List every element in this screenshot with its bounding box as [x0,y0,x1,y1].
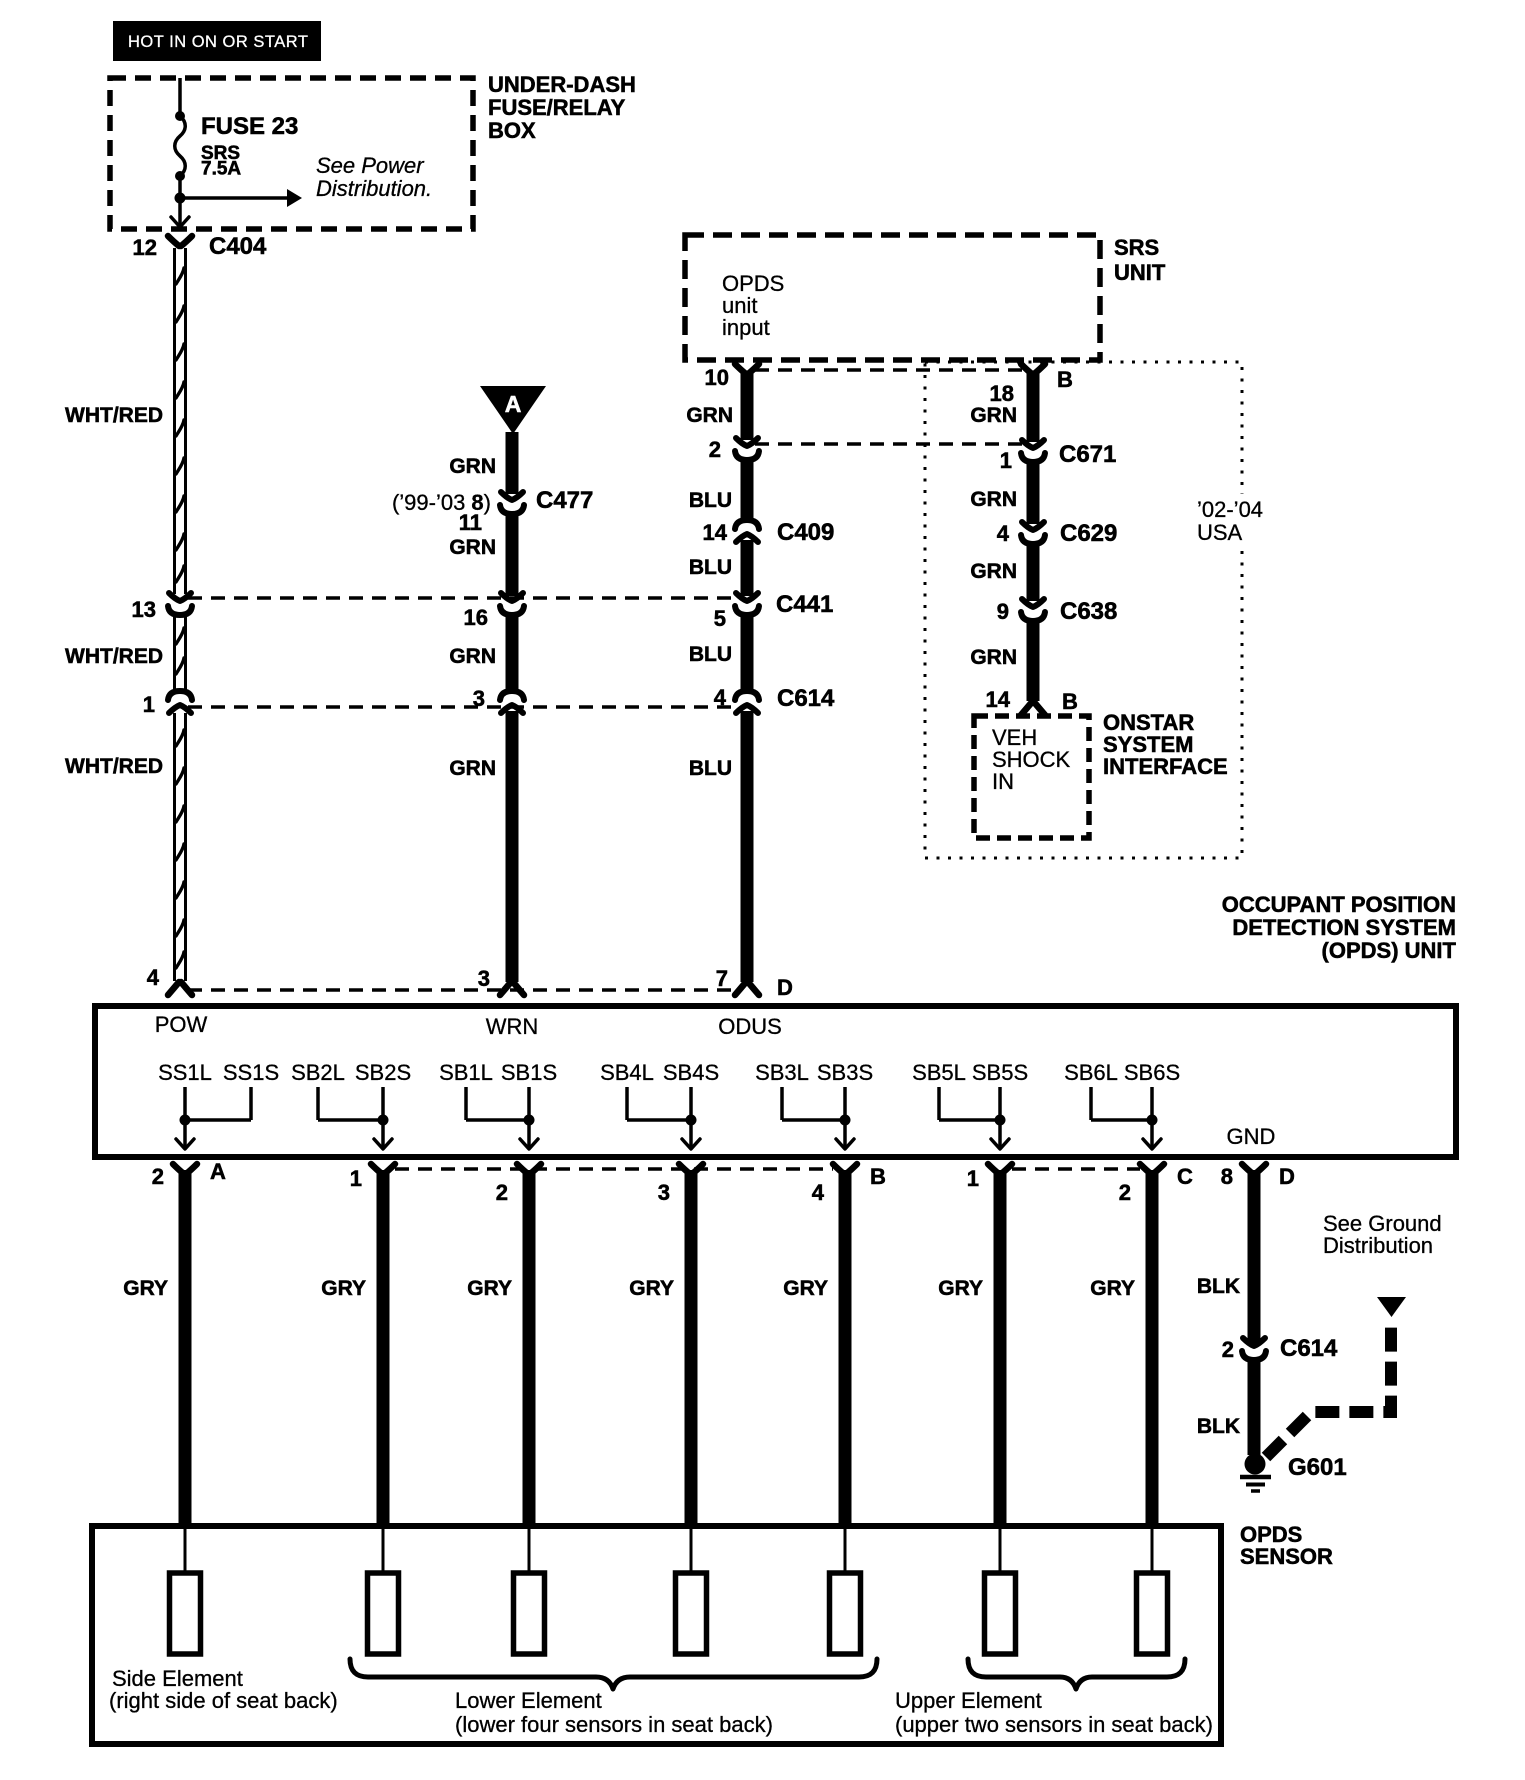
connector pin 10 [735,364,759,374]
brace upper element [968,1659,1185,1689]
wire SB6L stub [1089,1087,1093,1120]
sensor element 1 [170,1573,201,1654]
svg-text:2: 2 [1222,1337,1234,1362]
svg-text:BLK: BLK [1197,1415,1240,1438]
sensor element 5 lead [844,1526,847,1573]
svg-text:WHT/RED: WHT/RED [65,404,163,427]
wire SB4S stub [689,1087,693,1120]
wire GRY 4 [685,1170,698,1526]
svg-text:SB2L: SB2L [291,1060,345,1085]
branch wire to power distribution [180,196,287,200]
svg-text:BLU: BLU [689,489,732,512]
svg-text:Distribution.: Distribution. [316,176,432,201]
wire GRN segment 1-4 [1027,460,1040,524]
connector C477 [501,492,523,500]
wire BLK segment 2-G601 [1248,1358,1261,1455]
svg-text:SB5L: SB5L [912,1060,966,1085]
wire SS1L stub [183,1087,187,1120]
wire GRN segment B-1 [1027,372,1040,442]
connector C441 [736,593,758,601]
arrow SB6 to pin [1150,1120,1154,1149]
node dot SB3 [840,1115,851,1126]
wire GRN segment 9-14 [1027,619,1040,701]
svg-text:UNIT: UNIT [1114,260,1166,285]
wire GRY 2 [377,1170,390,1526]
connector pin 3 (column 2) [500,691,524,700]
connector C614 (ground) [1243,1338,1265,1346]
wire joint SB1 [466,1118,529,1122]
svg-text:SB2S: SB2S [355,1060,411,1085]
connector pin 16 [501,593,523,601]
svg-text:GRN: GRN [970,488,1017,511]
wire SB1S stub [527,1087,531,1120]
svg-text:input: input [722,315,770,340]
svg-text:GRN: GRN [970,404,1017,427]
svg-text:5: 5 [714,606,726,631]
connector C638 [1022,599,1044,607]
svg-text:SB4L: SB4L [600,1060,654,1085]
svg-text:7.5A: 7.5A [201,159,241,180]
svg-text:11: 11 [459,510,482,535]
wire WHT/RED segment 2 (pin 13 to pin 1) [173,615,176,691]
connector pin D8 [1242,1164,1266,1174]
svg-text:GND: GND [1227,1124,1276,1149]
wire GRN segment 16-3 [506,613,519,693]
svg-text:Lower Element: Lower Element [455,1688,602,1713]
svg-text:A: A [210,1159,226,1184]
svg-text:D: D [1279,1164,1295,1189]
svg-text:SB6S: SB6S [1124,1060,1180,1085]
connector pin B3 [679,1164,703,1174]
connector pin C1 [988,1164,1012,1174]
svg-text:C: C [1177,1164,1193,1189]
svg-text:2: 2 [709,437,721,462]
arrowhead to See Power Distribution [287,189,302,207]
svg-text:UNDER-DASH: UNDER-DASH [488,72,636,97]
svg-text:SS1S: SS1S [223,1060,279,1085]
sensor element 7 [1137,1573,1168,1654]
sensor element 7 lead [1151,1526,1154,1573]
wire GRY 6 [994,1170,1007,1526]
svg-text:DETECTION SYSTEM: DETECTION SYSTEM [1232,915,1456,940]
VEH SHOCK IN box (dashed) [974,716,1089,838]
connector pin 1 (left column) [168,691,192,700]
svg-text:BLU: BLU [689,757,732,780]
svg-text:(OPDS) UNIT: (OPDS) UNIT [1322,938,1457,963]
svg-text:INTERFACE: INTERFACE [1103,754,1228,779]
svg-text:1: 1 [967,1166,979,1191]
svg-text:1: 1 [1000,448,1012,473]
svg-text:BLK: BLK [1197,1275,1240,1298]
dashed connector C row [1012,1167,1140,1171]
node dot SB4 [686,1115,697,1126]
wire WHT/RED segment 3 (pin 1 to pin 4) [173,713,176,981]
wire BLK segment D-2 [1248,1170,1261,1343]
svg-text:BLU: BLU [689,556,732,579]
connector pin B1 [371,1164,395,1174]
node dot SB5 [995,1115,1006,1126]
arrow SB4 to pin [689,1120,693,1149]
svg-text:C404: C404 [209,233,267,260]
wire joint SB6 [1091,1118,1152,1122]
svg-text:GRY: GRY [321,1277,366,1300]
wire joint SB2 [318,1118,383,1122]
svg-text:’02-’04: ’02-’04 [1197,497,1263,522]
svg-text:OCCUPANT POSITION: OCCUPANT POSITION [1222,892,1456,917]
sensor element 5 [830,1573,861,1654]
svg-text:C614: C614 [1280,1335,1338,1362]
wire SB3L stub [780,1087,784,1120]
wire from box top to fuse [178,78,182,116]
svg-text:SRS: SRS [1114,235,1159,260]
wire BLU segment 2-14 [741,458,754,522]
sensor element 6 lead [999,1526,1002,1573]
wire SB2L stub [316,1087,320,1120]
svg-text:SS1L: SS1L [158,1060,212,1085]
connector C614 (column 3) [735,691,759,700]
arrow SB5 to pin [998,1120,1002,1149]
svg-text:GRY: GRY [467,1277,512,1300]
svg-text:10: 10 [705,365,729,390]
connector pin 14 B (into ONSTAR) [1021,702,1045,715]
connector C629 [1022,522,1044,530]
node dot SB6 [1147,1115,1158,1126]
wire GRN segment 3-3b [506,711,519,982]
arrow SS1 to pin [183,1120,187,1149]
svg-text:C629: C629 [1060,520,1117,547]
svg-text:4: 4 [812,1180,825,1205]
brace lower element [350,1659,877,1689]
wire BLU segment 5-4 [741,613,754,693]
dashed ground distribution wire [1266,1318,1391,1457]
node dot below fuse [175,171,185,181]
wire joint SB4 [627,1118,691,1122]
sensor element 3 [514,1573,545,1654]
svg-text:GRY: GRY [1090,1277,1135,1300]
svg-text:FUSE 23: FUSE 23 [201,113,298,140]
node dot SS1 [180,1115,191,1126]
svg-text:B: B [1057,367,1073,392]
connector pin B4 [833,1164,857,1174]
connector C671 [1022,440,1044,448]
OPDS unit box [95,1006,1456,1157]
connector pin C2 [1140,1164,1164,1174]
svg-text:GRN: GRN [970,560,1017,583]
wire GRY 5 [839,1170,852,1526]
connector C409 [735,520,759,529]
svg-text:SB6L: SB6L [1064,1060,1118,1085]
svg-text:BLU: BLU [689,643,732,666]
svg-text:C409: C409 [777,519,834,546]
svg-text:SENSOR: SENSOR [1240,1544,1333,1569]
wire SB2S stub [381,1087,385,1120]
svg-text:B: B [1062,689,1078,714]
svg-text:SB5S: SB5S [972,1060,1028,1085]
svg-text:2: 2 [496,1180,508,1205]
wire joint SB3 [782,1118,845,1122]
wire SB3S stub [843,1087,847,1120]
svg-text:4: 4 [997,521,1010,546]
wire GRN segment C477-16 [506,512,519,596]
white backing for 02-04 label [1192,494,1268,544]
svg-text:SB4S: SB4S [663,1060,719,1085]
svg-text:2: 2 [1119,1180,1131,1205]
sensor element 4 [676,1573,707,1654]
wire joint SB5 [939,1118,1000,1122]
wire SS1S stub [249,1087,253,1120]
svg-text:BOX: BOX [488,118,536,143]
svg-text:D: D [777,975,793,1000]
wire SB5L stub [937,1087,941,1120]
wire GRN segment 4-9 [1027,542,1040,601]
svg-text:1: 1 [143,692,155,717]
svg-text:13: 13 [132,597,156,622]
power source label HOT IN ON OR START [113,21,321,61]
connector pin 3 (into OPDS unit) [500,982,524,995]
svg-text:9: 9 [997,599,1009,624]
arrow SB2 to pin [381,1120,385,1149]
svg-text:SB1S: SB1S [501,1060,557,1085]
svg-text:WRN: WRN [486,1014,539,1039]
svg-text:12: 12 [133,235,157,260]
sensor element 1 lead [184,1526,187,1573]
svg-text:3: 3 [478,966,490,991]
svg-text:GRN: GRN [686,404,733,427]
svg-text:C614: C614 [777,685,835,712]
dotted box '02-'04 USA region [925,362,1242,858]
dashed net row 4-3-7 [188,988,739,992]
svg-text:G601: G601 [1288,1454,1347,1481]
wire BLU segment 4-7 [741,711,754,982]
svg-text:18: 18 [990,381,1014,406]
wire SB1L stub [464,1087,468,1120]
wire BLU segment 10-2 [741,372,754,440]
svg-text:HOT IN ON OR START: HOT IN ON OR START [128,33,308,51]
svg-text:Distribution: Distribution [1323,1233,1433,1258]
sensor element 6 [985,1573,1016,1654]
wire joint SS1 [185,1118,251,1122]
svg-text:C671: C671 [1059,441,1116,468]
node dot SB1 [524,1115,535,1126]
node dot SB2 [378,1115,389,1126]
svg-text:14: 14 [986,687,1011,712]
svg-text:16: 16 [464,605,488,630]
dashed connector B row [395,1167,833,1171]
svg-text:(right side of seat back): (right side of seat back) [109,1688,338,1713]
svg-text:(lower four sensors in seat ba: (lower four sensors in seat back) [455,1712,773,1737]
svg-text:(upper two sensors in seat bac: (upper two sensors in seat back) [895,1712,1213,1737]
wire SB4L stub [625,1087,629,1120]
svg-text:14: 14 [703,520,728,545]
connector pin 13 [169,593,191,601]
off-page triangle A [480,386,546,434]
wire SB6S stub [1150,1087,1154,1120]
svg-text:USA: USA [1197,520,1243,545]
svg-text:GRN: GRN [449,536,496,559]
svg-text:3: 3 [658,1180,670,1205]
wire branch node to C404 arrow [178,198,182,227]
wire GRY 7 [1146,1170,1159,1526]
SRS unit box (dashed) [685,235,1100,360]
svg-text:SB1L: SB1L [439,1060,493,1085]
svg-text:C638: C638 [1060,598,1117,625]
OPDS sensor box [92,1526,1221,1744]
wire WHT/RED segment 1 (pin 12 to pin 13) [173,248,176,594]
svg-text:Upper Element: Upper Element [895,1688,1042,1713]
wire BLU segment 14-5 [741,540,754,596]
svg-text:GRN: GRN [449,757,496,780]
arrow SB1 to pin [527,1120,531,1149]
wire SB5S stub [998,1087,1002,1120]
svg-text:GRY: GRY [123,1277,168,1300]
svg-text:B: B [870,1164,886,1189]
connector pin B (top) [1021,364,1045,374]
off-page triangle (ground distribution) [1377,1297,1406,1317]
svg-text:7: 7 [716,966,728,991]
svg-text:GRN: GRN [970,646,1017,669]
connector pin A2 [173,1164,197,1174]
connector pin 7 (into OPDS unit) [735,982,759,995]
node dot above fuse [175,111,185,121]
fuse F23 element (wavy) [175,116,186,176]
arrow SB3 to pin [843,1120,847,1149]
svg-text:GRY: GRY [783,1277,828,1300]
svg-text:GRY: GRY [629,1277,674,1300]
wire GRN segment A-C477 [506,432,519,494]
svg-text:8: 8 [1221,1164,1233,1189]
svg-text:ODUS: ODUS [718,1014,782,1039]
svg-text:SB3S: SB3S [817,1060,873,1085]
svg-text:WHT/RED: WHT/RED [65,755,163,778]
dashed net row 1-3-4 [188,705,739,709]
sensor element 2 lead [382,1526,385,1573]
connector pin 2 (column 3) [736,438,758,446]
sensor element 3 lead [528,1526,531,1573]
wire GRY 1 [179,1170,192,1526]
svg-text:POW: POW [155,1012,208,1037]
wire fuse to branch node [178,176,182,198]
ground G601 symbol [1245,1454,1266,1475]
svg-text:C441: C441 [776,591,833,618]
svg-text:C477: C477 [536,487,593,514]
svg-text:SB3L: SB3L [755,1060,809,1085]
svg-text:FUSE/RELAY: FUSE/RELAY [488,95,626,120]
svg-text:1: 1 [350,1166,362,1191]
wire GRY 3 [523,1170,536,1526]
dashed net row 13-16-5 [188,596,739,600]
dashed net row pin2-1 [755,442,1024,446]
svg-text:IN: IN [992,769,1014,794]
dashed net row pin10-B [755,368,1024,372]
sensor element 4 lead [690,1526,693,1573]
svg-text:GRN: GRN [449,455,496,478]
svg-text:GRN: GRN [449,645,496,668]
svg-text:A: A [505,391,522,417]
node dot at branch [175,193,186,204]
connector pin B2 [517,1164,541,1174]
svg-text:4: 4 [147,965,160,990]
svg-text:See Power: See Power [316,153,425,178]
svg-text:WHT/RED: WHT/RED [65,645,163,668]
svg-text:2: 2 [152,1164,164,1189]
connector pin 4 (into OPDS unit) [168,982,192,995]
connector C404 [168,236,192,246]
sensor element 2 [368,1573,399,1654]
svg-text:GRY: GRY [938,1277,983,1300]
under-dash fuse/relay box (dashed) [110,78,473,229]
